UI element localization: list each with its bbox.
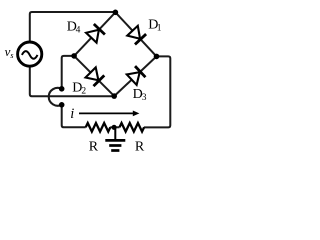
wire: below crossover down then right to resistor R (left) (62, 105, 86, 128)
svg-text:1: 1 (157, 23, 162, 33)
node: crossover bottom dot (59, 102, 65, 108)
wire: bridge edge top node to left node (D4 branch) (74, 12, 115, 56)
node: bottom junction dot (111, 93, 117, 99)
wire: left node left then down to crossover (62, 56, 74, 89)
node: junction dot between resistors (112, 125, 117, 130)
resistor R2 (right) zigzag (120, 123, 145, 132)
node: right junction dot (154, 54, 160, 60)
diode D3 (bottom node to right node) (127, 66, 146, 85)
diode D4 (left node to top node) (86, 24, 105, 43)
voltage source vs (AC) (18, 42, 42, 66)
wire: segment between the two resistors (110, 126, 119, 128)
current arrow i (79, 111, 139, 117)
wire: top-left loop from source top to top node (30, 12, 116, 42)
svg-text:2: 2 (81, 87, 86, 97)
wire: source bottom down and right to bottom node (30, 66, 114, 96)
svg-text:3: 3 (142, 93, 147, 103)
wire: right node right then down then left to resistor R (right) (144, 56, 170, 127)
svg-text:R: R (135, 139, 145, 154)
svg-text:s: s (10, 51, 13, 60)
node: crossover top dot (59, 86, 65, 92)
diode D1 (top node to right node) (127, 26, 146, 45)
svg-text:4: 4 (76, 25, 81, 35)
wire: bridge edge left node to bottom node (D2 branch) (74, 56, 114, 96)
wire: bridge edge bottom node to right node (D3 branch) (114, 56, 156, 96)
diode D2 (left node to bottom node) (86, 67, 105, 86)
svg-text:i: i (70, 106, 74, 122)
resistor R1 (left) zigzag (86, 123, 111, 132)
node: left junction dot (71, 53, 77, 59)
wire: bridge edge top node to right node (D1 branch) (115, 12, 156, 56)
ground symbol (105, 128, 125, 151)
node: top junction dot (113, 10, 119, 16)
svg-text:R: R (89, 139, 99, 154)
wire: crossover hop arc over bottom wire (49, 88, 62, 106)
